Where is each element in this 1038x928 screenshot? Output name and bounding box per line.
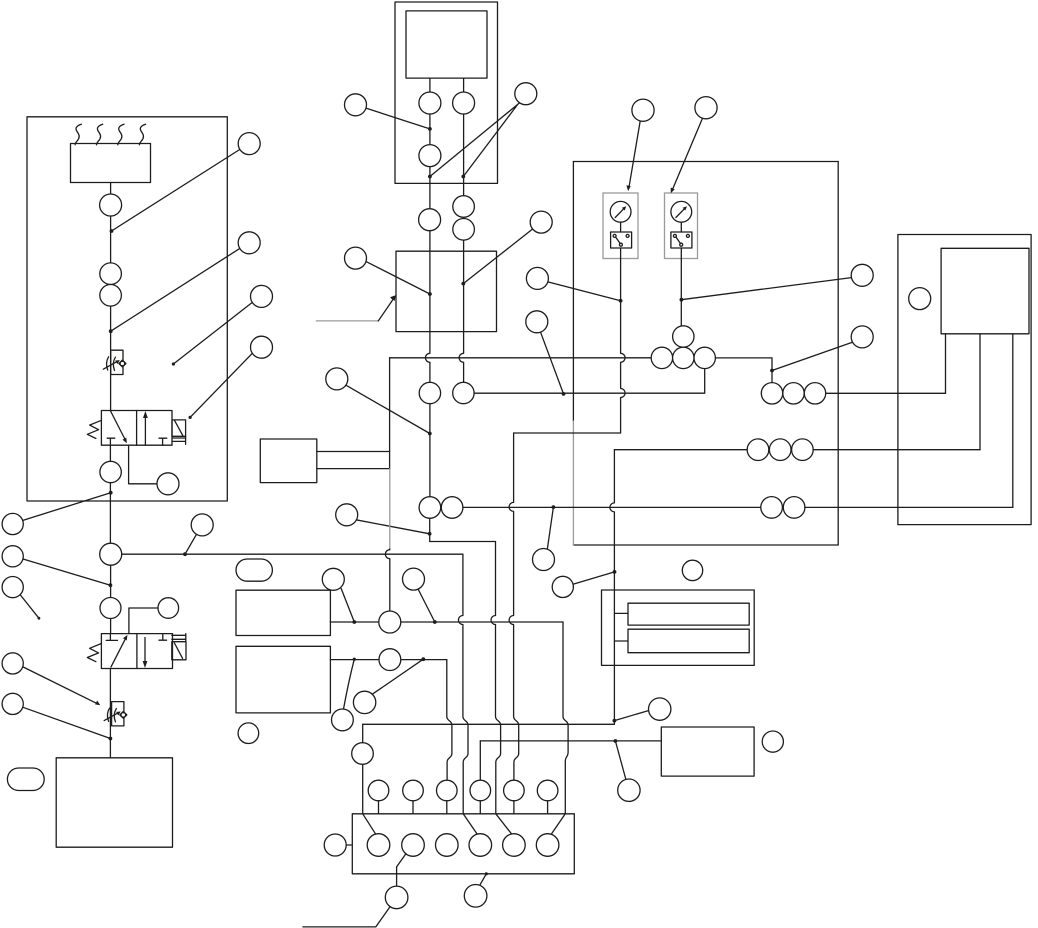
gauge G1 gray frame bbox=[603, 193, 638, 259]
G1 switch contacts bbox=[613, 234, 616, 237]
node dot bbox=[353, 658, 356, 661]
leader callout M5 to dot on left wire bbox=[346, 385, 430, 434]
wire heater to valve V1 (main line) bbox=[110, 183, 112, 411]
callout circle left of relay bbox=[552, 576, 573, 597]
callout circle M10 bbox=[353, 691, 375, 713]
callout circle A3 bbox=[251, 285, 273, 307]
circle pair on left branch bbox=[419, 497, 441, 519]
callout circle below bbox=[618, 779, 640, 801]
chain circles y507.4 bbox=[761, 497, 783, 519]
callout circle left of G1 dot bbox=[526, 267, 548, 289]
node dots bbox=[428, 175, 432, 179]
V1 solenoid box bbox=[172, 420, 186, 436]
floating callout circle above relay bbox=[682, 560, 702, 580]
leader callout M10 to dot bbox=[372, 659, 423, 694]
node dot A3 bbox=[172, 362, 175, 365]
V2 down-arrow line bbox=[144, 638, 146, 666]
wire y449.7 to far-right box bbox=[813, 449, 980, 451]
middle process box bbox=[396, 251, 497, 331]
leader to callout bbox=[573, 572, 615, 584]
dryer enclosure box bbox=[27, 117, 227, 501]
inline circle pair 1 bbox=[100, 263, 122, 285]
leader to callout A3 bbox=[173, 302, 252, 364]
wire right branch through mid box with hop bbox=[459, 240, 464, 382]
inline circle below V1 bbox=[100, 461, 121, 482]
component rect R1 bbox=[236, 590, 330, 635]
inline circle on y659 bbox=[379, 649, 401, 671]
relay internal wire with stubs bbox=[614, 590, 628, 724]
wire main below circle to circle bbox=[110, 565, 112, 633]
G1 gauge dial bbox=[610, 201, 631, 222]
leader to callout below strip bbox=[480, 874, 487, 885]
wire E: from y433 corner down with hops and jogs to top pin 5 bbox=[509, 433, 519, 780]
wire y507.4 to far-right box bbox=[805, 506, 1013, 508]
V1 up-arrow line bbox=[144, 414, 146, 445]
node dot A4 bbox=[189, 416, 192, 419]
callout circle L1 bbox=[2, 513, 23, 534]
chain circles y393 bbox=[761, 383, 782, 404]
leader callout M1 to dot bbox=[366, 108, 430, 129]
far-right box bbox=[898, 235, 1031, 525]
wire y=449.7 corner to chain bbox=[614, 449, 747, 451]
heat squiggle 3 bbox=[118, 124, 124, 145]
wire V1 work port to circle bbox=[129, 445, 157, 484]
leader to callout A1 bbox=[112, 149, 241, 231]
leader to callout bbox=[614, 710, 650, 721]
callout circle A2 bbox=[238, 232, 260, 254]
node dot on y507 bbox=[552, 505, 556, 509]
F1 throttle arrow bbox=[103, 361, 118, 369]
R3 output line 2 bbox=[317, 468, 390, 470]
V2 T port top-left bbox=[106, 634, 117, 641]
leader callout M7 to dot bbox=[185, 534, 197, 554]
valve V2 body bbox=[101, 634, 172, 669]
node dot bbox=[352, 620, 356, 624]
callout circle M9 bbox=[403, 568, 425, 590]
F2 throttle arrow bbox=[104, 713, 119, 721]
G1 needle bbox=[615, 208, 624, 217]
inline circle main wire top bbox=[100, 194, 122, 216]
terminal circles lower row bbox=[367, 834, 390, 857]
leader from dot to callout L1 bbox=[23, 493, 111, 521]
node dot A2 bbox=[109, 329, 113, 333]
external circle left of strip bbox=[324, 834, 346, 856]
F1 restrictor arc right bbox=[113, 357, 115, 370]
callout circle M8 bbox=[322, 568, 344, 590]
leader callout M3 to dot bbox=[366, 261, 430, 294]
control box bottom edge bbox=[573, 544, 838, 546]
far-right drop 1 bbox=[945, 334, 947, 394]
leader callout to y393 dot bbox=[541, 332, 564, 394]
stadium label left bbox=[7, 768, 44, 791]
gauge G2 gray frame bbox=[665, 193, 698, 259]
circle below R2 bbox=[238, 723, 259, 744]
top middle outer box bbox=[395, 2, 498, 183]
wire left branch to circle pair bbox=[429, 404, 431, 497]
node dot bbox=[428, 532, 432, 536]
callout circle G1 bbox=[632, 99, 654, 121]
stadium label mid bbox=[236, 559, 272, 581]
V1 T port left bbox=[107, 437, 115, 439]
node dot bbox=[109, 737, 113, 741]
leader callout M2 to two dots bbox=[430, 103, 520, 177]
wire pilot circle to V2 bbox=[129, 608, 158, 634]
leader callout L5 to dot bbox=[23, 707, 110, 738]
node dot bbox=[421, 657, 425, 661]
inline circle pair 2 bbox=[100, 285, 122, 307]
leader to G2 with arrow bbox=[672, 118, 703, 190]
callout circle M6 bbox=[336, 504, 358, 526]
F1 restrictor arc left bbox=[107, 357, 109, 370]
component rect R2 bbox=[236, 646, 330, 713]
leader callout R2 to dot bbox=[772, 342, 852, 370]
heat squiggle 4 bbox=[139, 124, 145, 145]
F2 restrictor arc right bbox=[114, 709, 116, 722]
circle below terminal 2 bbox=[385, 886, 408, 909]
V1 spring bbox=[87, 420, 101, 438]
terminal strip box bbox=[352, 814, 574, 874]
leader callout M6 to dot bbox=[355, 520, 429, 534]
tank box bbox=[56, 758, 172, 847]
wire left branch corner to the right bbox=[430, 518, 496, 541]
callout circle M4 bbox=[530, 211, 552, 233]
leader callout L3 (ends mid air) bbox=[20, 595, 39, 618]
exit polyline bottom left bbox=[303, 907, 390, 927]
leader callout L4 to arrow at F2 bbox=[23, 667, 98, 704]
V1 flow diagonal with arrow bbox=[110, 411, 125, 441]
callout circle below y507 bbox=[533, 549, 555, 571]
leader callout L2 to dot bbox=[23, 559, 110, 585]
top middle inner box bbox=[406, 11, 487, 78]
callout circle L3 bbox=[2, 577, 23, 598]
callout circle G2 bbox=[695, 97, 717, 119]
leader callout right to G2 dot bbox=[681, 278, 851, 300]
V2 solenoid diagonal bbox=[174, 643, 182, 658]
R3 output line 1 bbox=[317, 451, 390, 453]
node dot on y393 bbox=[562, 392, 566, 396]
far-right inner box bbox=[941, 248, 1029, 333]
top pin circles bbox=[368, 780, 389, 801]
valve V1 body bbox=[101, 411, 172, 446]
leader callout M8 to dot bbox=[341, 589, 354, 622]
wire y=622 from R1 bbox=[330, 621, 563, 623]
node dot A1 bbox=[110, 229, 114, 233]
bus top edge y=724.3 bbox=[363, 723, 615, 725]
wire y393 to far-right box bbox=[826, 392, 946, 394]
node dot on G1 wire bbox=[619, 299, 623, 303]
wire C corner down to top pin 4 bbox=[479, 741, 481, 780]
long wire y=554 bbox=[122, 553, 463, 555]
inline circles left branch bbox=[419, 92, 441, 114]
drop from terminal 2 to circle below bbox=[397, 854, 406, 886]
F2 check valve ball bbox=[121, 713, 126, 718]
triangle junction circles bbox=[673, 326, 694, 347]
callout circle below strip bbox=[464, 885, 487, 908]
leader to callout below bbox=[547, 507, 553, 549]
inline circle on bus left edge bbox=[352, 743, 374, 765]
G1 wire down with hops then left jog bbox=[514, 248, 626, 433]
node dot bbox=[428, 432, 432, 436]
vertical link R3 lines (dark part) bbox=[389, 358, 391, 469]
wire right branch x=464 top bbox=[463, 78, 465, 92]
leader to callout A4 bbox=[190, 353, 253, 418]
heat squiggle 1 bbox=[75, 124, 81, 145]
F2 restrictor arc left bbox=[107, 708, 109, 721]
tiny end dot bbox=[38, 617, 41, 620]
callout circle R2 bbox=[851, 326, 873, 348]
callout circle above bbox=[526, 311, 548, 333]
wire y=740.9 to output box bbox=[480, 740, 661, 742]
node dot on y740.9 bbox=[614, 739, 618, 743]
inline circles right branch bbox=[453, 92, 475, 114]
relay column wire x=614.4 upper with hop bbox=[610, 450, 615, 590]
long wire y=357.8 bbox=[390, 357, 652, 359]
callout circle M2 bbox=[515, 83, 537, 105]
far-right drop 3 bbox=[1012, 334, 1014, 508]
circle beside V2 pilot bbox=[158, 598, 179, 619]
node dot bbox=[433, 620, 437, 624]
wire A: corner down from y659 with jogs to connector circle bbox=[447, 660, 452, 780]
component rect R3 bbox=[260, 439, 317, 483]
callout circle M5 bbox=[326, 368, 348, 390]
G1 pressure switch box bbox=[611, 232, 632, 248]
callout circle M7 bbox=[191, 514, 213, 536]
control box top edge bbox=[573, 161, 838, 163]
heater block bbox=[71, 144, 151, 183]
top pin stubs bbox=[379, 801, 548, 814]
flow control valve F2 body bbox=[112, 702, 124, 726]
wire y=393 circle to chain bbox=[474, 370, 705, 394]
G2 gauge dial bbox=[671, 201, 692, 222]
node dot on main wire bbox=[109, 491, 113, 495]
G2 pressure switch box bbox=[671, 232, 692, 248]
relay element rect 2 bbox=[628, 629, 749, 653]
wire V2 output down to tank bbox=[109, 669, 111, 758]
G2 needle bbox=[676, 208, 685, 217]
leader callout M4 to dot bbox=[463, 229, 532, 283]
gray vertical segment bbox=[389, 469, 391, 549]
wire y=659.6 from R2 bbox=[330, 659, 446, 661]
pointer polyline with arrow into middle box bbox=[316, 320, 378, 322]
dark lower part with hop over y554 bbox=[385, 549, 390, 611]
heat squiggle 2 bbox=[97, 124, 103, 145]
inline circle above V2 bbox=[100, 598, 121, 619]
callout circle L5 bbox=[2, 693, 23, 714]
node dot bbox=[461, 282, 465, 286]
curved leader to circle below bbox=[344, 659, 355, 709]
control box left edge lower (gray) bbox=[572, 421, 574, 545]
node dot on y554 bbox=[183, 552, 187, 556]
far-right drop 2 bbox=[979, 334, 981, 450]
callout circle R-G2 bbox=[851, 264, 873, 286]
wire D down from corner with hops and jogs to connector bbox=[491, 542, 513, 837]
V2 flow diagonal with arrow bbox=[111, 637, 126, 667]
callout circle A4 bbox=[251, 336, 273, 358]
wire left branch x=430 top bbox=[429, 78, 431, 92]
callout circle right bbox=[649, 698, 671, 720]
V2 T port top-right bbox=[159, 634, 167, 641]
node dot on G2 wire bbox=[680, 298, 684, 302]
node dot x614 bbox=[613, 570, 617, 574]
wire left branch through mid box with hop bbox=[425, 231, 430, 382]
V2 solenoid leads bbox=[172, 634, 186, 642]
circle end of curved leader bbox=[332, 709, 354, 731]
node dot bbox=[109, 583, 113, 587]
wire F: y622 corner drop with jogs bbox=[550, 622, 568, 837]
node dot on drop bbox=[770, 369, 774, 373]
V1 T port right bbox=[159, 438, 167, 445]
circle on V1 work port bbox=[157, 473, 179, 495]
wire right branch long drop with hop and jogs bbox=[458, 554, 478, 836]
leader to callout A2 bbox=[111, 248, 240, 331]
G2 wire down to junction circle bbox=[680, 248, 682, 326]
callout circle M1 bbox=[345, 94, 367, 116]
V2 solenoid box bbox=[172, 642, 186, 660]
relay outer box bbox=[602, 590, 755, 665]
G1 link dial to switch bbox=[620, 222, 622, 232]
callout circle L4 bbox=[2, 653, 23, 674]
control box left edge upper (dark) bbox=[572, 162, 574, 422]
relay element rect 1 bbox=[628, 603, 749, 625]
F1 check valve ball bbox=[120, 361, 125, 366]
leader to G1 with arrow bbox=[629, 121, 640, 188]
callout circle L2 bbox=[2, 546, 23, 567]
inline circle main wire bbox=[100, 543, 122, 565]
callout circle M3 bbox=[345, 247, 367, 269]
leader to callout below bbox=[615, 741, 626, 780]
inline circle on y622 bbox=[379, 611, 401, 633]
leader callout to G1 wire dot bbox=[548, 282, 621, 301]
node dot below relay bbox=[613, 719, 617, 723]
V1 solenoid leads bbox=[172, 436, 186, 444]
G2 switch contacts bbox=[673, 234, 676, 237]
output box lower right bbox=[661, 727, 754, 776]
F1 check valve diamond bbox=[119, 360, 126, 367]
flow control valve F1 body bbox=[111, 350, 123, 374]
V1 divider bbox=[136, 411, 138, 446]
F2 check valve diamond bbox=[120, 712, 127, 719]
leader callout M9 to dot bbox=[418, 590, 435, 623]
wire V1 exhaust port down bbox=[109, 438, 111, 543]
V2 divider bbox=[136, 634, 138, 669]
node dot bbox=[428, 292, 432, 296]
G2 link dial to switch bbox=[680, 222, 682, 232]
control box right edge bbox=[837, 162, 839, 546]
circle in far-right box bbox=[909, 288, 931, 310]
node dot on strip bottom bbox=[485, 872, 488, 875]
callout circle right of output box bbox=[762, 731, 783, 752]
wire y=507.4 left part bbox=[463, 506, 761, 508]
bus left edge down to terminal box bbox=[363, 724, 377, 836]
wire triangle row to corner bbox=[715, 358, 772, 383]
V1 solenoid diagonal bbox=[175, 421, 183, 436]
callout circle A1 bbox=[238, 133, 260, 155]
V2 spring bbox=[87, 644, 101, 662]
chain circles y449.7 bbox=[747, 439, 769, 461]
node dot bbox=[428, 127, 432, 131]
stub external circle to box bbox=[346, 844, 352, 846]
